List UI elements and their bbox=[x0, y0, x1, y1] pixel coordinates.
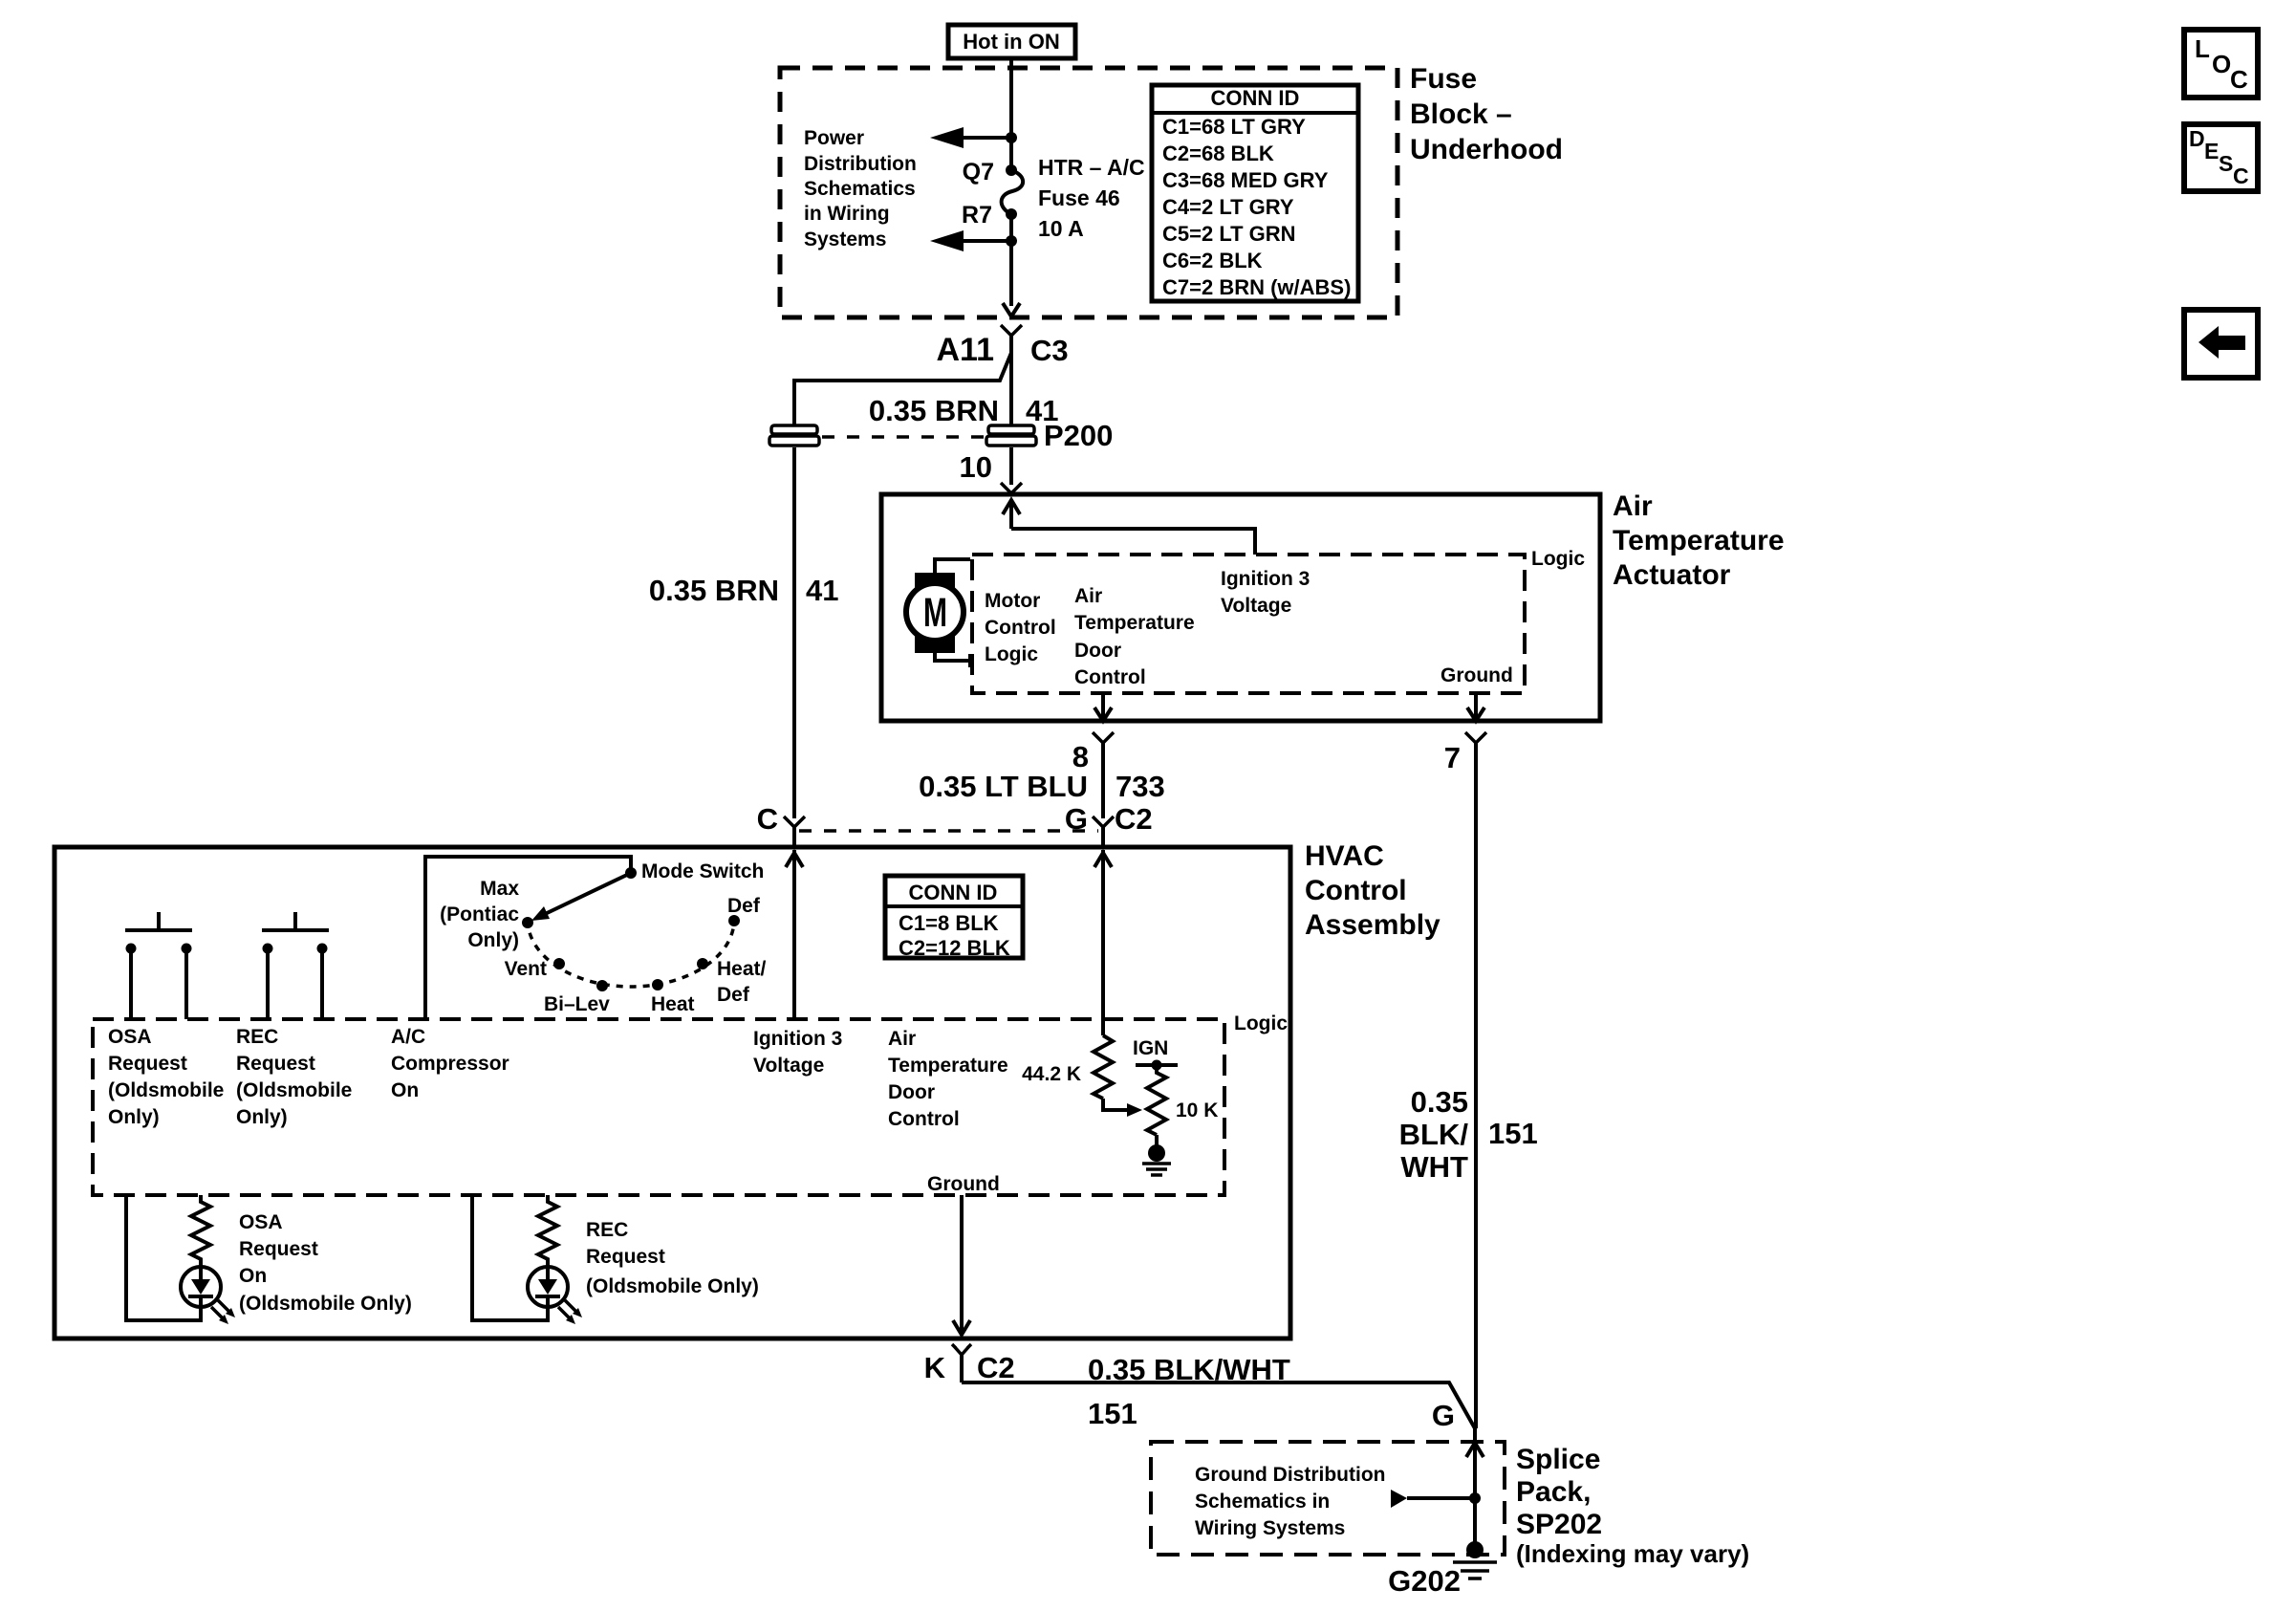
svg-text:A/C: A/C bbox=[391, 1026, 425, 1048]
svg-text:Voltage: Voltage bbox=[753, 1055, 824, 1077]
Ground Distribution Schematics label bbox=[1195, 1464, 1385, 1539]
svg-text:Heat: Heat bbox=[651, 993, 695, 1015]
REC Request (Oldsmobile Only) label bbox=[236, 1026, 352, 1128]
svg-text:CONN ID: CONN ID bbox=[909, 881, 998, 904]
splice pack dashed box bbox=[1151, 1442, 1505, 1555]
svg-text:C6=2 BLK: C6=2 BLK bbox=[1162, 249, 1263, 272]
contact Bi-Lev bbox=[596, 980, 608, 991]
connector C3 pin A11 bbox=[937, 325, 1069, 425]
svg-text:Power: Power bbox=[804, 127, 864, 149]
svg-text:C: C bbox=[2233, 163, 2249, 188]
motor M bbox=[906, 559, 970, 667]
grommet P200 (left wire) bbox=[769, 425, 819, 446]
CONN ID table (HVAC) bbox=[885, 876, 1023, 960]
svg-text:Only): Only) bbox=[467, 929, 519, 951]
svg-text:41: 41 bbox=[806, 574, 838, 607]
A/C compressor wire to mode switch bbox=[425, 857, 631, 1019]
svg-text:Bi–Lev: Bi–Lev bbox=[544, 993, 610, 1015]
svg-text:10 A: 10 A bbox=[1038, 216, 1084, 241]
svg-text:HTR – A/C: HTR – A/C bbox=[1038, 155, 1145, 180]
wire 41 below grommet (right) bbox=[1009, 447, 1013, 485]
svg-text:151: 151 bbox=[1488, 1117, 1538, 1150]
svg-text:Fuse: Fuse bbox=[1410, 63, 1477, 95]
svg-text:Logic: Logic bbox=[1234, 1012, 1288, 1034]
fuse block dashed box bbox=[780, 68, 1397, 317]
wire: main feed from Hot in ON through fuse bbox=[1009, 58, 1013, 168]
Air Temperature Actuator label bbox=[1613, 490, 1785, 591]
mode switch dashed arc bbox=[528, 920, 734, 987]
svg-text:HVAC: HVAC bbox=[1305, 840, 1384, 872]
svg-text:Compressor: Compressor bbox=[391, 1053, 509, 1075]
svg-text:Vent: Vent bbox=[505, 958, 547, 980]
svg-text:M: M bbox=[923, 590, 947, 636]
Motor Control Logic label bbox=[985, 590, 1056, 665]
dashed jumper wire C to G bbox=[799, 829, 1098, 833]
ground distribution continuation triangle bbox=[1391, 1490, 1471, 1508]
connector pin 10 bbox=[1001, 483, 1022, 493]
DESC nav box bbox=[2184, 124, 2258, 191]
svg-text:Hot in ON: Hot in ON bbox=[963, 30, 1059, 54]
label 0.35 BRN 41 bbox=[869, 394, 1059, 427]
svg-text:Door: Door bbox=[888, 1081, 935, 1103]
Ignition 3 Voltage label (HVAC) bbox=[753, 1028, 842, 1077]
svg-text:Mode Switch: Mode Switch bbox=[641, 860, 764, 882]
svg-text:Control: Control bbox=[888, 1108, 960, 1130]
svg-text:Actuator: Actuator bbox=[1613, 559, 1731, 591]
svg-text:Systems: Systems bbox=[804, 229, 886, 250]
svg-text:REC: REC bbox=[586, 1219, 628, 1241]
svg-text:Ignition 3: Ignition 3 bbox=[1221, 568, 1310, 590]
svg-text:E: E bbox=[2204, 139, 2219, 163]
ignition 3 wire into HVAC pin C bbox=[786, 850, 803, 1019]
svg-text:A11: A11 bbox=[937, 332, 995, 368]
fuse F46 HTR A/C 10A bbox=[962, 155, 1145, 241]
actuator ground wire bbox=[1467, 693, 1484, 721]
svg-text:L: L bbox=[2195, 34, 2210, 63]
svg-text:0.35 LT BLU: 0.35 LT BLU bbox=[919, 770, 1088, 803]
svg-text:Fuse 46: Fuse 46 bbox=[1038, 185, 1120, 210]
svg-text:O: O bbox=[2212, 50, 2231, 78]
svg-text:Only): Only) bbox=[108, 1106, 160, 1128]
mode switch wiper arrow bbox=[531, 874, 629, 921]
REC LED bbox=[528, 1267, 582, 1324]
svg-text:44.2 K: 44.2 K bbox=[1022, 1063, 1081, 1085]
dashed link between grommets bbox=[822, 435, 985, 439]
svg-text:(Oldsmobile: (Oldsmobile bbox=[108, 1079, 224, 1101]
ignition 3 voltage wire inside actuator bbox=[1003, 500, 1255, 555]
svg-text:(Indexing may vary): (Indexing may vary) bbox=[1516, 1539, 1749, 1568]
svg-text:(Oldsmobile Only): (Oldsmobile Only) bbox=[586, 1275, 759, 1297]
svg-text:C4=2 LT GRY: C4=2 LT GRY bbox=[1162, 195, 1294, 219]
svg-text:On: On bbox=[239, 1265, 267, 1287]
svg-text:G202: G202 bbox=[1388, 1564, 1461, 1598]
svg-text:C1=8 BLK: C1=8 BLK bbox=[899, 911, 999, 935]
svg-text:Request: Request bbox=[108, 1053, 187, 1075]
Power Distribution Schematics in Wiring Systems label bbox=[804, 127, 917, 250]
svg-text:P200: P200 bbox=[1044, 419, 1113, 452]
label 0.35 BLK/WHT (right wire) bbox=[1399, 1085, 1469, 1184]
svg-text:C2=68 BLK: C2=68 BLK bbox=[1162, 142, 1274, 165]
Splice Pack SP202 label bbox=[1516, 1444, 1749, 1568]
svg-text:WHT: WHT bbox=[1400, 1150, 1468, 1184]
contact Heat bbox=[652, 979, 663, 991]
svg-text:Wiring Systems: Wiring Systems bbox=[1195, 1517, 1345, 1539]
svg-text:Pack,: Pack, bbox=[1516, 1476, 1591, 1508]
IGN rail bbox=[1136, 1060, 1178, 1071]
svg-text:CONN ID: CONN ID bbox=[1211, 86, 1300, 110]
wire 151 from K to splice bbox=[962, 1382, 1475, 1428]
arrow to power distribution (bottom) bbox=[930, 230, 1017, 251]
svg-text:in Wiring: in Wiring bbox=[804, 203, 890, 225]
svg-text:Control: Control bbox=[1305, 875, 1407, 906]
svg-text:0.35 BRN: 0.35 BRN bbox=[649, 574, 779, 607]
connector pin 8 bbox=[1072, 732, 1114, 818]
svg-text:0.35: 0.35 bbox=[1411, 1085, 1468, 1119]
OSA LED bbox=[181, 1267, 235, 1324]
svg-text:(Pontiac: (Pontiac bbox=[440, 903, 519, 925]
svg-text:Assembly: Assembly bbox=[1305, 909, 1440, 941]
svg-text:Request: Request bbox=[236, 1053, 315, 1075]
contact Heat/Def bbox=[697, 958, 708, 969]
ground G202 bbox=[1388, 1541, 1497, 1598]
svg-text:BLK/: BLK/ bbox=[1399, 1118, 1469, 1151]
svg-text:Request: Request bbox=[586, 1246, 665, 1268]
wire 41 branch to HVAC bbox=[794, 353, 1011, 425]
LOC nav box bbox=[2184, 30, 2258, 98]
splice connector arrow bbox=[1466, 1443, 1484, 1457]
OSA Request On label bbox=[239, 1211, 412, 1315]
svg-text:REC: REC bbox=[236, 1026, 278, 1048]
svg-text:Ground: Ground bbox=[927, 1173, 1000, 1195]
svg-text:Distribution: Distribution bbox=[804, 153, 917, 175]
actuator air temp door control wire bbox=[1094, 693, 1112, 721]
svg-text:8: 8 bbox=[1072, 740, 1089, 773]
svg-text:Door: Door bbox=[1074, 640, 1121, 662]
svg-text:Underhood: Underhood bbox=[1410, 134, 1563, 165]
svg-text:OSA: OSA bbox=[239, 1211, 283, 1233]
connector G / C2 bbox=[1065, 802, 1153, 847]
connector K / C2 bbox=[924, 1344, 1015, 1384]
resistor 10 K bbox=[1147, 1065, 1218, 1135]
svg-text:Def: Def bbox=[727, 895, 761, 917]
svg-text:OSA: OSA bbox=[108, 1026, 152, 1048]
CONN ID table (fuse block underhood) bbox=[1152, 85, 1358, 301]
Air Temperature Door Control label (HVAC) bbox=[888, 1028, 1008, 1130]
svg-text:(Oldsmobile: (Oldsmobile bbox=[236, 1079, 352, 1101]
svg-text:Ground Distribution: Ground Distribution bbox=[1195, 1464, 1385, 1486]
svg-text:(Oldsmobile Only): (Oldsmobile Only) bbox=[239, 1293, 412, 1315]
svg-text:0.35 BLK/WHT: 0.35 BLK/WHT bbox=[1088, 1353, 1290, 1386]
svg-text:C: C bbox=[2230, 65, 2248, 94]
svg-text:C3=68 MED GRY: C3=68 MED GRY bbox=[1162, 168, 1329, 192]
svg-text:Ground: Ground bbox=[1440, 664, 1513, 686]
svg-text:C2: C2 bbox=[1115, 802, 1153, 836]
wiper arrow to 10K bbox=[1103, 1099, 1142, 1117]
switch S2 (REC request) bbox=[262, 912, 329, 1019]
svg-text:D: D bbox=[2189, 126, 2205, 151]
junction dot in splice bbox=[1469, 1492, 1481, 1504]
label "Hot in ON" box bbox=[948, 25, 1075, 58]
A/C Compressor On label bbox=[391, 1026, 509, 1101]
connector C bbox=[757, 802, 805, 847]
Fuse Block - Underhood label bbox=[1410, 63, 1563, 165]
svg-text:Voltage: Voltage bbox=[1221, 595, 1291, 617]
svg-text:Ignition 3: Ignition 3 bbox=[753, 1028, 842, 1050]
svg-text:Request: Request bbox=[239, 1238, 318, 1260]
wire into splice bbox=[1473, 1428, 1477, 1550]
svg-text:G: G bbox=[1432, 1399, 1455, 1432]
svg-text:Air: Air bbox=[1074, 585, 1102, 607]
REC request LED branch wire bbox=[472, 1195, 548, 1320]
connector pin 7 bbox=[1444, 732, 1486, 1428]
svg-text:10: 10 bbox=[960, 450, 992, 484]
svg-text:Logic: Logic bbox=[985, 643, 1038, 665]
svg-text:C3: C3 bbox=[1030, 334, 1069, 367]
label 0.35 BRN 41 (mid) bbox=[649, 574, 839, 607]
svg-text:Motor: Motor bbox=[985, 590, 1040, 612]
svg-text:Air: Air bbox=[1613, 490, 1653, 522]
svg-text:IGN: IGN bbox=[1133, 1037, 1168, 1059]
svg-text:Logic: Logic bbox=[1531, 548, 1585, 570]
wire 41 below grommet (left) bbox=[792, 447, 796, 818]
label 0.35 LT BLU 733 bbox=[919, 770, 1165, 803]
arrow to power distribution (top) bbox=[930, 127, 1017, 148]
svg-text:Heat/: Heat/ bbox=[717, 958, 767, 980]
contact Max bbox=[522, 917, 533, 928]
svg-text:Air: Air bbox=[888, 1028, 916, 1050]
svg-text:C7=2 BRN (w/ABS): C7=2 BRN (w/ABS) bbox=[1162, 275, 1351, 299]
contact Vent bbox=[553, 958, 565, 969]
REC Request On label bbox=[586, 1219, 759, 1297]
HVAC Control Assembly box bbox=[54, 847, 1290, 1339]
svg-text:SP202: SP202 bbox=[1516, 1509, 1602, 1540]
svg-text:Only): Only) bbox=[236, 1106, 288, 1128]
actuator logic dashed box bbox=[972, 555, 1525, 693]
REC resistor bbox=[538, 1195, 557, 1269]
down arrow at fuse block exit bbox=[1003, 303, 1020, 316]
HVAC Control Assembly label bbox=[1305, 840, 1440, 941]
Max (Pontiac Only) label bbox=[440, 878, 519, 951]
svg-text:S: S bbox=[2219, 151, 2233, 176]
svg-text:K: K bbox=[924, 1351, 946, 1384]
back arrow nav box bbox=[2184, 310, 2258, 378]
HVAC ground wire bbox=[953, 1195, 970, 1335]
switch S1 (OSA request) bbox=[125, 912, 192, 1019]
internal ground (10K) bbox=[1142, 1135, 1171, 1175]
svg-text:Control: Control bbox=[1074, 666, 1146, 688]
Ignition 3 Voltage label (actuator) bbox=[1221, 568, 1310, 617]
contact Def bbox=[728, 915, 740, 926]
svg-text:On: On bbox=[391, 1079, 419, 1101]
resistor 44.2 K bbox=[1022, 1035, 1113, 1099]
air temp door wire into HVAC pin G bbox=[1094, 850, 1112, 1035]
svg-text:0.35 BRN: 0.35 BRN bbox=[869, 394, 999, 427]
grommet P200 (right wire) bbox=[986, 425, 1036, 446]
svg-text:C: C bbox=[757, 802, 778, 836]
mode switch common dot bbox=[625, 867, 637, 879]
svg-text:Block –: Block – bbox=[1410, 98, 1512, 130]
svg-text:C5=2 LT GRN: C5=2 LT GRN bbox=[1162, 222, 1296, 246]
Air Temperature Actuator box bbox=[881, 494, 1600, 721]
svg-text:151: 151 bbox=[1088, 1397, 1137, 1430]
svg-text:Max: Max bbox=[480, 878, 519, 900]
svg-text:Control: Control bbox=[985, 617, 1056, 639]
OSA request LED branch wire bbox=[126, 1195, 201, 1320]
svg-text:Temperature: Temperature bbox=[1074, 612, 1195, 634]
svg-text:Splice: Splice bbox=[1516, 1444, 1600, 1475]
svg-text:Q7: Q7 bbox=[963, 159, 994, 185]
svg-text:10 K: 10 K bbox=[1176, 1099, 1218, 1121]
svg-text:C2=12 BLK: C2=12 BLK bbox=[899, 936, 1010, 960]
svg-text:C2: C2 bbox=[977, 1351, 1015, 1384]
svg-text:Schematics: Schematics bbox=[804, 178, 916, 200]
HVAC logic dashed box bbox=[93, 1019, 1224, 1195]
OSA resistor bbox=[191, 1195, 210, 1269]
svg-text:R7: R7 bbox=[962, 202, 992, 229]
Air Temperature Door Control label (actuator) bbox=[1074, 585, 1195, 688]
svg-text:C1=68 LT GRY: C1=68 LT GRY bbox=[1162, 115, 1306, 139]
OSA Request (Oldsmobile Only) label bbox=[108, 1026, 224, 1128]
svg-text:Temperature: Temperature bbox=[1613, 525, 1785, 556]
svg-text:7: 7 bbox=[1444, 741, 1461, 774]
svg-text:Schematics in: Schematics in bbox=[1195, 1491, 1330, 1513]
svg-text:733: 733 bbox=[1116, 770, 1165, 803]
svg-text:Def: Def bbox=[717, 984, 750, 1006]
svg-text:Temperature: Temperature bbox=[888, 1055, 1008, 1077]
